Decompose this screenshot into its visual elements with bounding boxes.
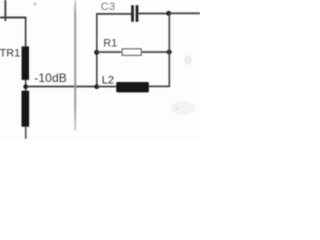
- wire R1 right segment: [142, 51, 169, 53]
- svg-text:TR1: TR1: [0, 47, 20, 59]
- wire L2 right segment: [149, 86, 170, 88]
- node L2 left junction dot: [94, 84, 99, 89]
- wire R1 left segment: [97, 51, 122, 53]
- svg-text:R1: R1: [103, 38, 117, 50]
- svg-text:-10dB: -10dB: [34, 71, 67, 85]
- wire C3 right segment to output junction: [138, 13, 168, 15]
- node output junction dot top right: [166, 11, 171, 16]
- wire L2 left segment: [97, 86, 117, 88]
- wire tap -10dB horizontal to L2 node: [27, 86, 97, 88]
- faint speck top middle: [34, 3, 36, 6]
- faint bleed-through smudge right middle: [184, 55, 192, 65]
- wire tap junction to lower resistor: [25, 89, 27, 92]
- resistor lower attenuator element (filled body): [22, 91, 30, 127]
- node R1 left junction dot: [94, 50, 99, 55]
- inductor L2 (filled body): [116, 82, 149, 92]
- faint bleed-through smudge bottom right: [171, 101, 195, 115]
- svg-text:L2: L2: [102, 74, 114, 86]
- capacitor C3 plates: [131, 5, 138, 22]
- wire TR1 bottom to tap junction: [25, 80, 27, 86]
- wire vertical pale rail (crossing, no connection): [74, 1, 76, 131]
- svg-text:C3: C3: [101, 1, 116, 13]
- wire lower resistor to bottom edge: [25, 127, 27, 140]
- wire vertical from corner down to TR1: [25, 17, 27, 47]
- node tap junction dot -10dB: [23, 84, 28, 89]
- wire input stub vertical top-left: [4, 0, 6, 21]
- wire horizontal from left edge to corner: [0, 17, 26, 19]
- wire vertical bus C3/R1/L2 left side: [96, 14, 98, 88]
- node R1 right junction dot: [167, 50, 172, 55]
- resistor TR1 (upper attenuator element, filled body): [22, 46, 29, 80]
- resistor R1 (outline body): [122, 49, 141, 55]
- wire C3 left segment: [96, 13, 131, 15]
- wire right rail vertical: [169, 13, 171, 87]
- wire output to right edge: [169, 12, 200, 14]
